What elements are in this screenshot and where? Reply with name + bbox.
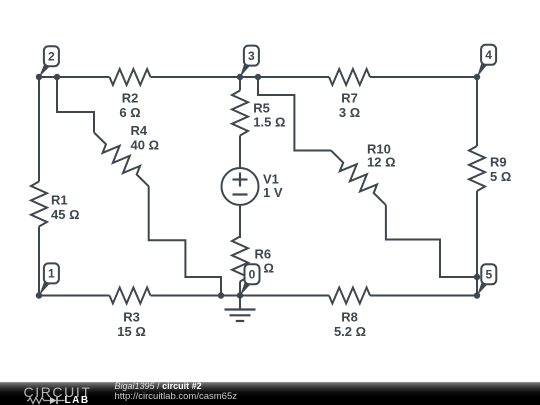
svg-text:3: 3 [248, 49, 255, 63]
footer credit line [115, 381, 202, 391]
resistor R8 [329, 288, 370, 340]
svg-text:45 Ω: 45 Ω [51, 207, 80, 222]
junction dot node 2 junction [36, 74, 42, 80]
wire right rail node4 to R9 [476, 77, 478, 146]
voltage source V1 [222, 168, 283, 205]
svg-text:R1: R1 [51, 193, 68, 208]
wire left rail node2 to R1 [38, 77, 40, 182]
svg-text:R5: R5 [253, 101, 270, 116]
wire bottom rail R8 to node5 [370, 295, 477, 297]
svg-text:5.2 Ω: 5.2 Ω [334, 324, 366, 339]
junction dot node 1 junction [36, 292, 42, 298]
wire bottom rail node1 to R3 [39, 295, 110, 297]
junction dot R4 bottom junction [218, 292, 224, 298]
svg-text:R2: R2 [122, 91, 139, 106]
resistor R7 [329, 69, 370, 120]
CircuitLab logo wordmark LAB [65, 395, 90, 405]
svg-text:2: 2 [48, 49, 55, 63]
wire V1 to R6 [239, 205, 241, 238]
junction dot node 4 junction [474, 74, 480, 80]
node 4 flag [477, 45, 496, 77]
wire R10 to right rail junction [386, 205, 477, 277]
wire R6 to ground node [239, 282, 241, 296]
svg-text:1 V: 1 V [263, 185, 283, 200]
wire top rail R2 to R7 [151, 76, 330, 78]
svg-text:3 Ω: 3 Ω [339, 105, 360, 120]
svg-text:R4: R4 [131, 123, 148, 138]
resistor R9 [469, 146, 511, 191]
svg-text:5: 5 [485, 268, 492, 282]
resistor R10 (diagonal) [331, 142, 396, 206]
svg-text:1.5 Ω: 1.5 Ω [253, 115, 285, 130]
svg-text:R8: R8 [341, 310, 358, 325]
resistor R3 [110, 288, 151, 340]
wire R5 to V1 [239, 136, 241, 169]
svg-text:R7: R7 [341, 91, 358, 106]
junction dot node 3 junction [237, 74, 243, 80]
svg-text:12 Ω: 12 Ω [367, 154, 396, 169]
footer url line [115, 391, 238, 402]
resistor R4 (diagonal) [94, 123, 159, 186]
wire top rail R7 to node 4 [370, 76, 477, 78]
node 2 flag [39, 46, 59, 77]
svg-text:40 Ω: 40 Ω [131, 137, 160, 152]
svg-text:Ω: Ω [264, 261, 274, 276]
svg-text:5 Ω: 5 Ω [490, 169, 511, 184]
node 3 flag [240, 46, 259, 77]
junction dot R10 right rail junction [474, 274, 480, 280]
wire branch from node3 junction to R10 [258, 77, 331, 151]
wire node3 to R5 [239, 77, 241, 91]
svg-text:R3: R3 [123, 310, 140, 325]
svg-text:6 Ω: 6 Ω [119, 105, 140, 120]
resistor R2 [110, 69, 151, 120]
resistor R1 [31, 182, 80, 227]
footer bar [0, 382, 540, 405]
wire right rail R9 to node5 [476, 191, 478, 296]
svg-text:4: 4 [485, 48, 492, 62]
wire top rail node2 to R2 [39, 76, 110, 78]
resistor R5 [232, 91, 285, 136]
svg-text:R9: R9 [490, 155, 507, 170]
CircuitLab logo wordmark CIRCUIT [24, 384, 92, 400]
svg-text:R6: R6 [255, 247, 272, 262]
wire left rail R1 to node1 [38, 227, 40, 296]
node 5 flag [477, 264, 496, 295]
svg-text:1: 1 [48, 267, 55, 281]
junction dot node 0 ground junction [237, 292, 243, 298]
node 1 flag [39, 263, 59, 295]
resistor R6 [232, 237, 274, 282]
node 0 flag [240, 264, 260, 295]
wire R4 to bottom rail junction [149, 186, 221, 295]
wire branch from node2 junction to R4 [57, 77, 94, 133]
CircuitLab logo schematic squiggle (resistor + diode) [27, 396, 67, 405]
junction dot R4 branch junction [54, 74, 60, 80]
junction dot node 5 junction [474, 292, 480, 298]
wire bottom rail R3 to ground node [151, 295, 330, 297]
ground symbol at node 0 [225, 296, 256, 322]
svg-text:15 Ω: 15 Ω [117, 324, 146, 339]
junction dot R10 branch junction [255, 74, 261, 80]
svg-text:0: 0 [249, 267, 256, 281]
